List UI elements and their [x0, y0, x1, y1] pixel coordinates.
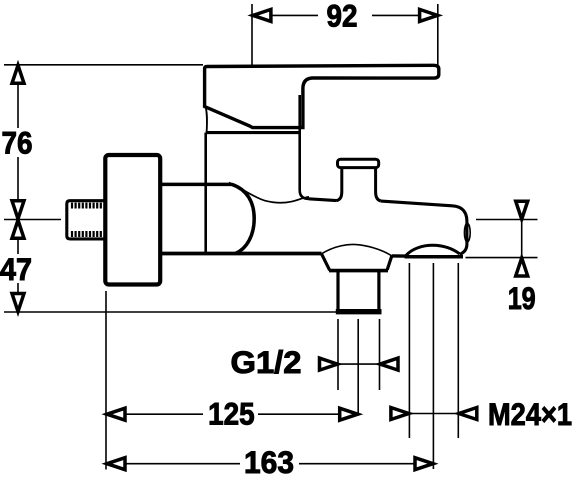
body top edge at diverter port: [309, 199, 337, 201]
arrow 92 right: [420, 9, 438, 21]
body bottom edge: [159, 252, 322, 256]
extension line wall plane vertical: [105, 291, 107, 470]
arrow 92 left: [253, 9, 271, 21]
cartridge neck left edge: [204, 133, 207, 253]
shower boss left slope: [322, 254, 330, 270]
spout end-cap ellipse: [464, 223, 470, 242]
body sphere D-arc: [232, 184, 255, 253]
svg-text:163: 163: [244, 444, 294, 480]
centerline inlet axis left: [4, 219, 61, 221]
spout outlet dome: [406, 245, 460, 256]
shower outlet shoulder line: [329, 269, 388, 273]
svg-text:G1/2: G1/2: [231, 344, 302, 380]
body bottom edge between outlets: [392, 254, 406, 258]
extension line outlet-bottom level (47 bottom): [4, 311, 336, 313]
shower outlet thread left edge: [336, 271, 339, 310]
diverter port left side: [337, 168, 342, 201]
arrow 125 right: [340, 408, 358, 420]
svg-text:M24×1: M24×1: [488, 396, 572, 432]
cartridge neck top edge: [206, 131, 300, 134]
arrow 76 top (up): [12, 65, 24, 83]
handle lever outline: [205, 65, 439, 127]
body saddle wave contour: [229, 183, 309, 203]
dimension line 163: [107, 463, 433, 465]
svg-text:125: 125: [208, 396, 255, 432]
extension line 92 left: [251, 4, 253, 66]
shower boss dome contour: [322, 244, 392, 255]
extension line G1/2 left: [337, 319, 339, 390]
diverter port cap: [338, 159, 379, 167]
extension line M24x1 left: [408, 263, 410, 438]
svg-text:76: 76: [2, 125, 33, 161]
extension line spout outlet centre: [432, 263, 434, 469]
dimension line M24x1: [409, 413, 458, 415]
spout aerator face chord: [405, 255, 464, 259]
body top edge left section: [159, 183, 232, 187]
arrow 163 right: [415, 458, 433, 470]
shower outlet thread right edge: [377, 271, 380, 310]
svg-text:92: 92: [327, 0, 358, 33]
extension line G1/2 right: [379, 319, 381, 390]
arrow 19 top (down onto line): [516, 201, 528, 219]
arrow M24x1 right (points left): [459, 408, 477, 420]
inlet nipple outline: [67, 201, 104, 239]
extension line M24x1 right: [457, 263, 459, 438]
dimension line 19 vertical: [521, 201, 523, 276]
svg-text:19: 19: [508, 280, 536, 316]
inlet nipple thread ticks bottom: [72, 231, 101, 237]
extension line shower outlet centre: [357, 319, 359, 414]
arrow G1/2 left (points right): [320, 358, 338, 370]
extension line 19 bottom (aerator face level): [466, 257, 538, 259]
svg-text:47: 47: [0, 251, 32, 287]
cartridge dome left contour: [205, 105, 207, 133]
dimension line 125: [107, 413, 358, 415]
arrow 47 bottom (down): [12, 294, 24, 312]
diverter port right side: [376, 168, 381, 201]
dimension line 92: [253, 14, 437, 16]
arrow 47 top (up): [12, 220, 24, 238]
shower boss right slope: [387, 256, 392, 270]
dimension line G1/2: [338, 363, 380, 365]
wall flange: [105, 155, 160, 285]
arrow M24x1 left (points right): [391, 408, 409, 420]
dimension line 76/47 vertical: [17, 65, 19, 311]
extension line handle-top level (76 top): [4, 64, 203, 66]
cartridge neck right edge: [300, 95, 309, 199]
shower outlet bottom face: [336, 309, 382, 314]
arrow 125 left: [107, 408, 125, 420]
body top edge right section and right end: [381, 201, 467, 254]
extension line 92 right: [437, 4, 439, 66]
arrow G1/2 right (points left): [380, 358, 398, 370]
inlet nipple thread ticks top: [72, 203, 101, 209]
extension line 19 top (axis level): [476, 219, 538, 221]
arrow 76 bottom (down): [12, 201, 24, 219]
arrow 19 bottom (up onto line): [516, 258, 528, 276]
arrow 163 left: [107, 458, 125, 470]
